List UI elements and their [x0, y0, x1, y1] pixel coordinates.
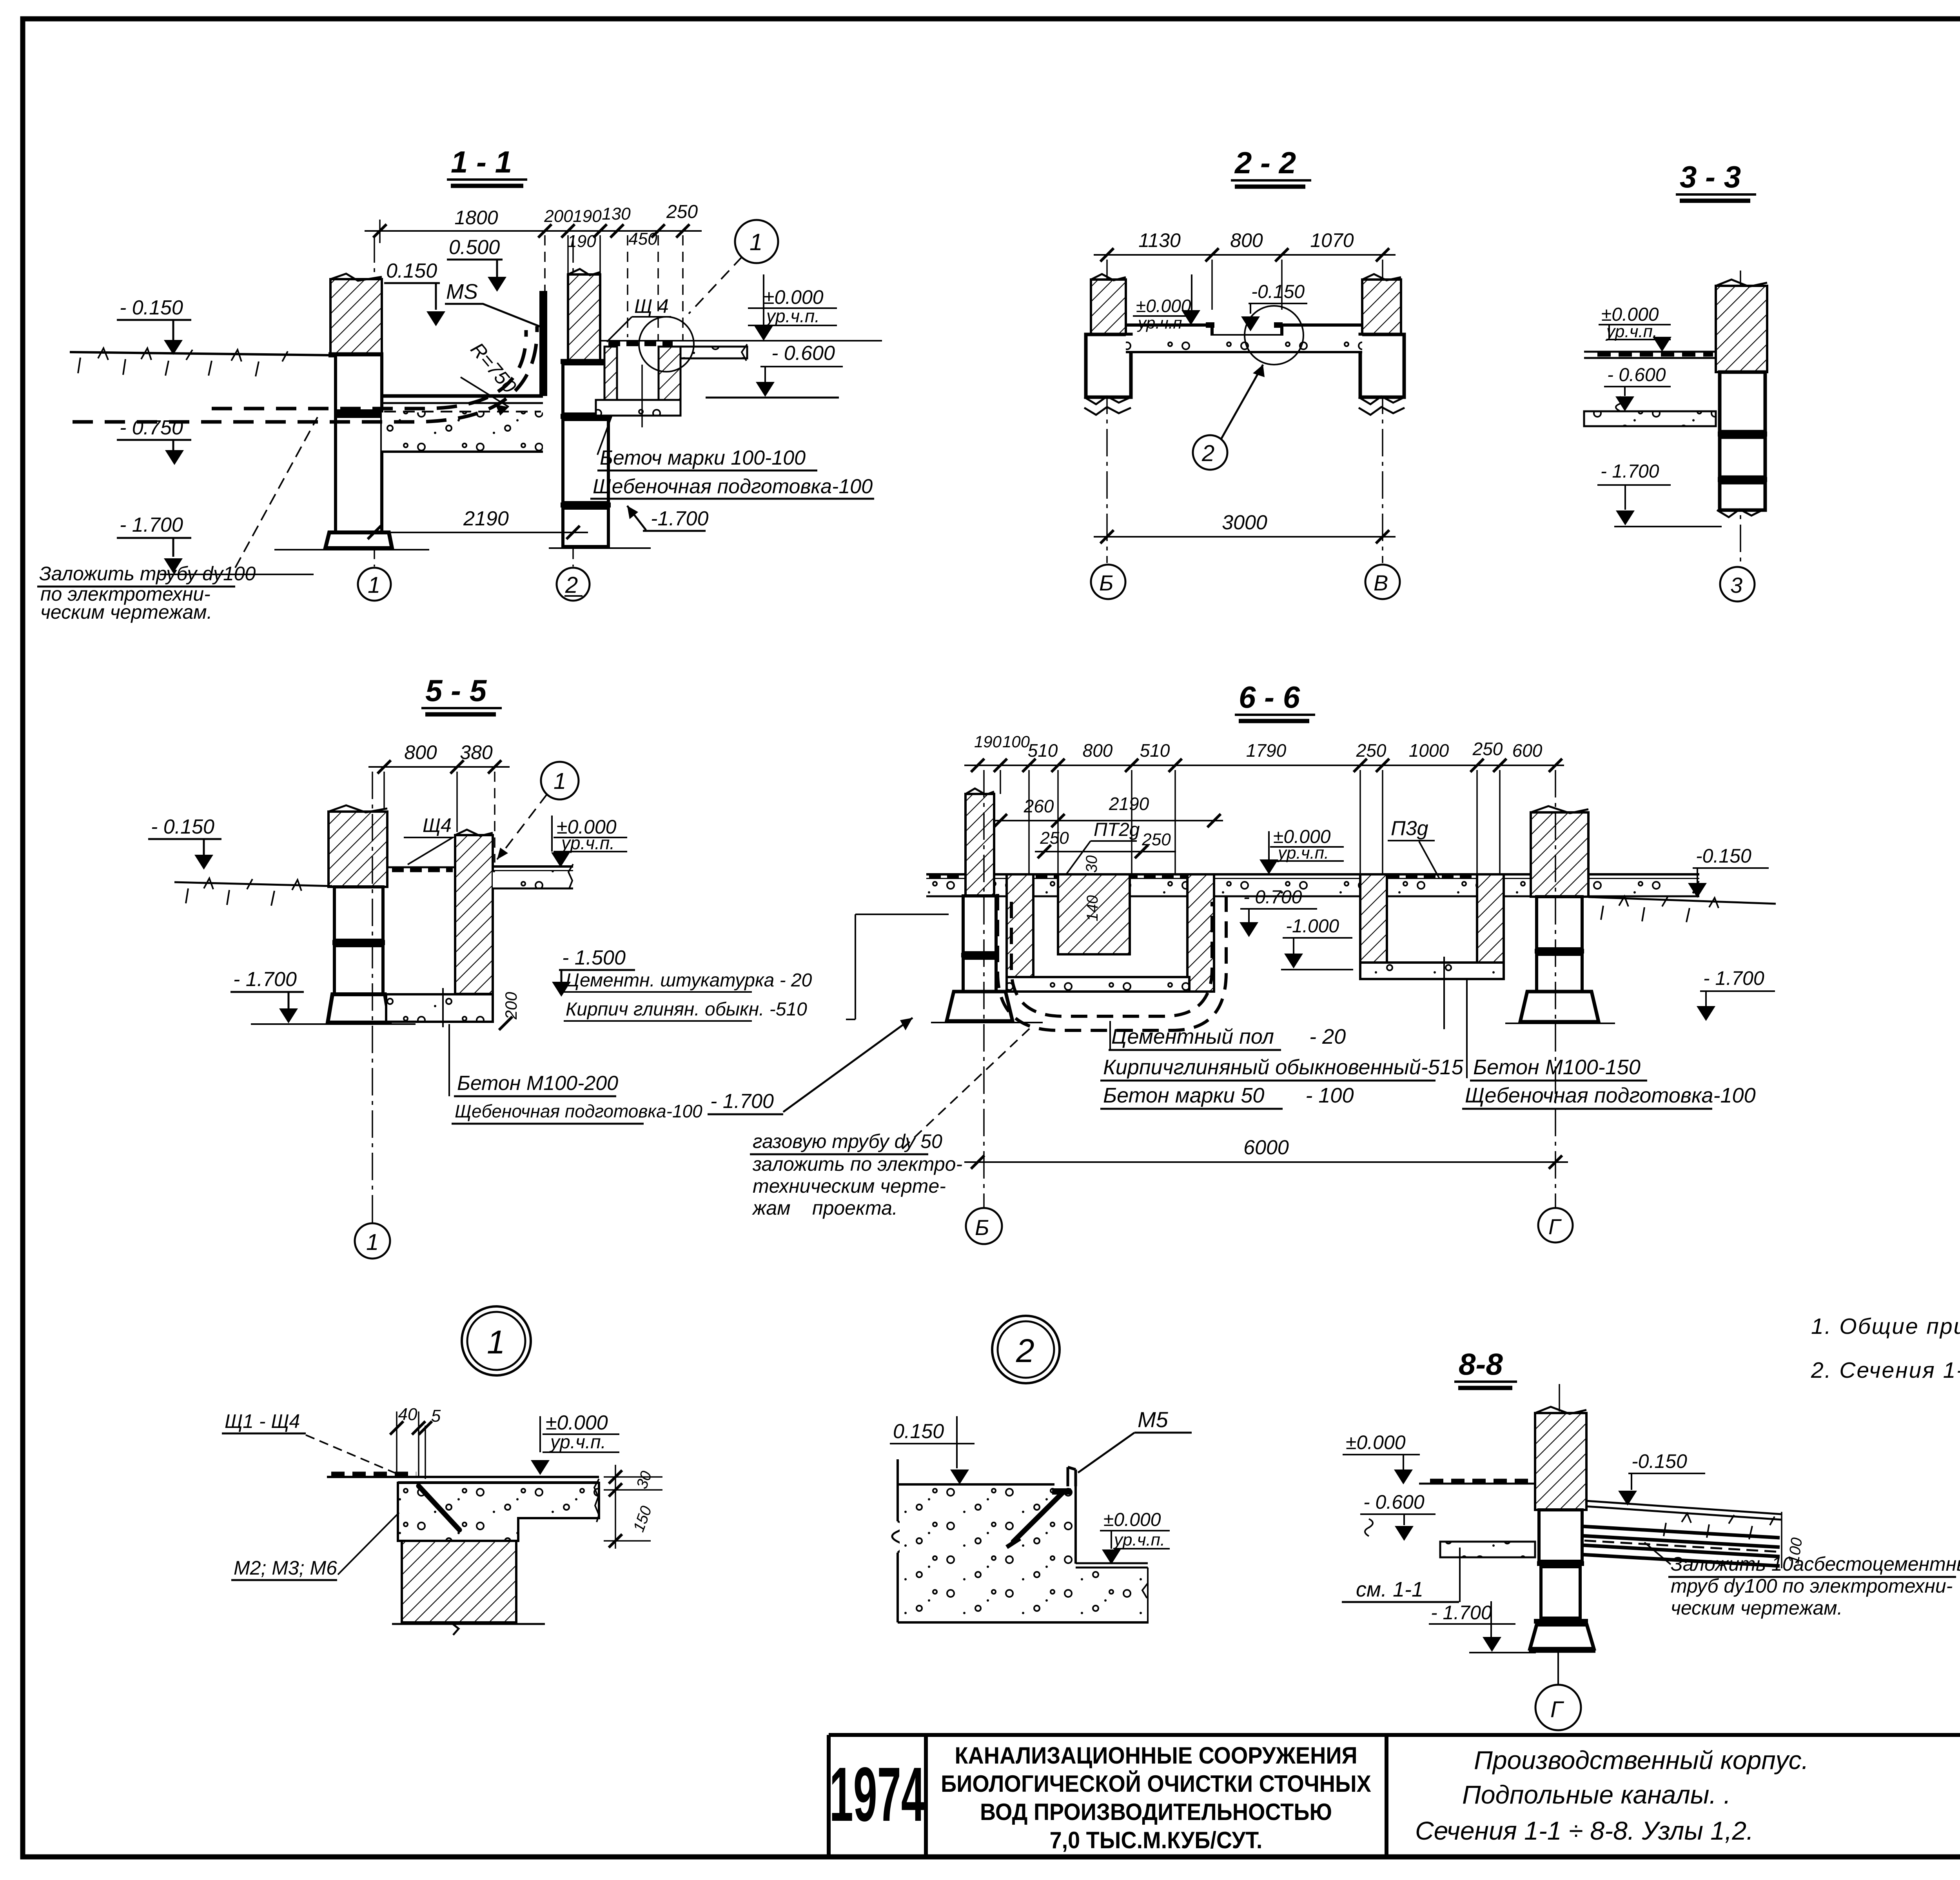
svg-text:- 0.600: - 0.600 [1607, 365, 1666, 385]
level -1.700 [1429, 1601, 1536, 1653]
label П3g [1388, 817, 1441, 881]
svg-text:40: 40 [398, 1405, 417, 1424]
concrete base layer [1584, 411, 1716, 426]
svg-text:±0.000: ±0.000 [764, 286, 824, 308]
column axis 1 foundation pad [274, 532, 429, 550]
svg-text:1: 1 [366, 1230, 379, 1255]
ground line left [174, 878, 332, 906]
axis 2 centerline [572, 235, 574, 567]
level +-0.000 [1133, 274, 1200, 332]
svg-text:-0.150: -0.150 [1251, 282, 1305, 302]
svg-text:- 0.700: - 0.700 [1243, 887, 1302, 908]
svg-text:190: 190 [974, 732, 1002, 751]
svg-text:- 0.600: - 0.600 [1363, 1491, 1425, 1513]
detail 2 concrete block [892, 1459, 1149, 1623]
svg-text:Беточ марки 100-100: Беточ марки 100-100 [600, 447, 806, 469]
axis 3 centerline [1740, 271, 1741, 566]
column shaft [332, 887, 385, 994]
channel 1 left wall [1007, 874, 1033, 992]
svg-text:250: 250 [1356, 740, 1387, 761]
svg-text:800: 800 [1083, 740, 1113, 761]
svg-text:- 0.750: - 0.750 [120, 416, 183, 439]
level -0.750 left [117, 416, 191, 465]
detail 1 bubble [462, 1306, 531, 1375]
column axis 2 pier [549, 361, 651, 548]
svg-text:Г: Г [1548, 1214, 1562, 1239]
axis bubble Б [966, 770, 1002, 1244]
axis bubble Б [1091, 565, 1125, 599]
label Щ4 [404, 814, 453, 865]
detail callout 1 [689, 220, 778, 314]
year 1974 [829, 1751, 925, 1837]
sheet title handwritten [1415, 1746, 1809, 1845]
channel 2 left wall [1360, 874, 1387, 977]
channel 1 bottom slab [1007, 977, 1189, 992]
level -1.700 right [1697, 967, 1775, 1021]
level -1.700 [230, 968, 304, 1023]
svg-text:- 0.150: - 0.150 [151, 816, 214, 838]
floor strip right of channel [681, 344, 747, 361]
ref см 1-1 [1342, 1548, 1460, 1602]
note gas pipe [750, 1028, 1030, 1219]
svg-text:600: 600 [1512, 740, 1543, 761]
channel bottom slab [596, 365, 681, 427]
svg-text:- 1.700: - 1.700 [710, 1090, 774, 1113]
svg-text:Кирпич глинян. обыкн. -510: Кирпич глинян. обыкн. -510 [566, 999, 807, 1020]
section 1-1 title [447, 145, 527, 186]
svg-text:250: 250 [1142, 830, 1171, 849]
section 5-5 title [421, 673, 502, 714]
svg-text:Кирпичглиняный обыкновенный-5: Кирпичглиняный обыкновенный-515 [1103, 1055, 1464, 1079]
label М5 [1078, 1407, 1192, 1473]
detail 1 concrete mass [398, 1479, 599, 1541]
svg-text:заложить по электро-: заложить по электро- [752, 1153, 962, 1175]
section 8-8 title [1454, 1347, 1517, 1388]
axis Б centerline [1106, 260, 1108, 563]
svg-text:Заложить трубу dy100: Заложить трубу dy100 [39, 563, 256, 585]
svg-text:3000: 3000 [1222, 511, 1267, 534]
level -0.700 [1240, 887, 1317, 937]
dimension 1130/800/1070 [1094, 229, 1396, 310]
svg-text:140: 140 [1084, 895, 1101, 921]
svg-text:Заложить 10асбестоцементных: Заложить 10асбестоцементных [1671, 1553, 1960, 1575]
svg-text:2: 2 [1016, 1332, 1034, 1369]
svg-text:Г: Г [1550, 1697, 1564, 1722]
label 0.150 [384, 260, 445, 326]
channel right wall [659, 347, 681, 400]
right vertical dims 30 150 [604, 1465, 662, 1549]
svg-text:3: 3 [1730, 573, 1742, 598]
svg-text:ческим чертежам.: ческим чертежам. [40, 601, 212, 623]
level -0.600 right [706, 342, 843, 398]
svg-text:450: 450 [628, 229, 657, 249]
note concrete grade 100 [590, 416, 874, 499]
level -0.150 [1618, 1450, 1705, 1506]
svg-text:190: 190 [567, 232, 596, 251]
svg-text:130: 130 [602, 204, 631, 223]
level +-0.000 [1343, 1431, 1420, 1484]
anchor bolt [419, 1486, 459, 1530]
svg-text:КАНАЛИЗАЦИОННЫЕ СООРУЖЕНИЯ: КАНАЛИЗАЦИОННЫЕ СООРУЖЕНИЯ [955, 1743, 1357, 1769]
svg-text:БИОЛОГИЧЕСКОЙ ОЧИСТКИ СТОЧНЫХ: БИОЛОГИЧЕСКОЙ ОЧИСТКИ СТОЧНЫХ [941, 1771, 1371, 1797]
label 0.500 [447, 236, 506, 292]
dimension 800/380 [368, 741, 510, 863]
svg-text:1 - 1: 1 - 1 [451, 145, 512, 179]
svg-text:-0.150: -0.150 [1696, 845, 1751, 867]
axis bubble 2 [557, 568, 590, 601]
svg-text:ВОД ПРОИЗВОДИТЕЛЬНОСТЬЮ: ВОД ПРОИЗВОДИТЕЛЬНОСТЬЮ [980, 1799, 1332, 1825]
svg-text:- 1.700: - 1.700 [120, 514, 183, 536]
pier below wall [1529, 1510, 1595, 1651]
detail 1 brick base [392, 1541, 545, 1635]
channel 2 right wall [1477, 874, 1504, 977]
label Щ1-Щ4 [222, 1410, 400, 1475]
svg-text:Б: Б [1099, 570, 1113, 595]
svg-text:100: 100 [1002, 732, 1030, 751]
svg-text:2190: 2190 [1109, 794, 1149, 814]
level -1.700 left with arrow [708, 1018, 913, 1114]
top dimension row [964, 732, 1564, 874]
svg-text:1000: 1000 [1409, 740, 1449, 761]
level -0.150 recess [1241, 282, 1307, 331]
svg-text:800: 800 [1230, 229, 1263, 251]
floor slab with recess [1126, 322, 1362, 352]
level -1.700 at pier base [627, 506, 709, 531]
svg-text:ПТ2g: ПТ2g [1094, 819, 1140, 840]
level +-0.000 lower [1100, 1509, 1170, 1564]
svg-text:Бетон М100-200: Бетон М100-200 [457, 1072, 618, 1095]
svg-text:см. 1-1: см. 1-1 [1356, 1578, 1423, 1601]
detail callout 1 [497, 762, 579, 859]
svg-text:- 1.700: - 1.700 [1703, 967, 1764, 989]
svg-text:М5: М5 [1138, 1407, 1169, 1432]
level +-0.000 [1599, 304, 1671, 352]
svg-text:8-8: 8-8 [1459, 1347, 1503, 1381]
floor slab [926, 874, 1699, 896]
channel bottom slab [386, 988, 493, 1027]
svg-text:200: 200 [544, 207, 573, 226]
svg-text:-0.150: -0.150 [1632, 1450, 1687, 1472]
svg-text:200: 200 [502, 992, 520, 1020]
svg-text:1800: 1800 [454, 207, 498, 229]
channel 1 central pier [1058, 874, 1130, 954]
svg-text:Щ 4: Щ 4 [634, 295, 669, 317]
svg-text:260: 260 [1024, 796, 1054, 816]
svg-text:250: 250 [666, 202, 698, 222]
axis bubble В [1365, 565, 1400, 599]
svg-text:±0.000: ±0.000 [1346, 1431, 1406, 1453]
level +-0.000 [531, 1411, 619, 1475]
dimension 6000 [964, 1136, 1568, 1169]
note asbestos pipes [1644, 1542, 1960, 1619]
wall axis Б hatched [1091, 274, 1126, 334]
level -0.150 right [1688, 845, 1769, 898]
svg-text:Бетон марки 50 - 100: Бетон марки 50 - 100 [1103, 1084, 1354, 1107]
svg-text:0.500: 0.500 [449, 236, 500, 259]
level 0.150 [890, 1416, 975, 1484]
svg-text:2. Сечения 1-1 ÷ 8-8 снесен: 2. Сечения 1-1 ÷ 8-8 снесены с листа КС-… [1811, 1358, 1960, 1383]
svg-text:- 0.600: - 0.600 [771, 342, 835, 365]
pier below wall [1717, 372, 1767, 517]
svg-text:2: 2 [565, 572, 578, 598]
svg-text:5: 5 [431, 1406, 441, 1426]
axis bubble Г [1535, 1652, 1581, 1730]
detail ref circle 2 [1193, 365, 1265, 470]
svg-text:380: 380 [460, 741, 493, 763]
section 2-2 title [1231, 145, 1311, 187]
svg-text:ческим чертежам.: ческим чертежам. [1671, 1597, 1842, 1619]
svg-text:1: 1 [554, 768, 566, 794]
channel cover between column and wall [387, 867, 455, 870]
М5 flashing angle [1007, 1467, 1076, 1547]
second dim row 260/2190 [992, 794, 1223, 827]
svg-text:Щебеночная подготовка-100: Щебеночная подготовка-100 [593, 475, 873, 498]
level +-0.000 [551, 816, 627, 867]
wall axis В footing [1359, 334, 1405, 415]
svg-text:5 - 5: 5 - 5 [425, 673, 487, 708]
third dim row 250/250 and ПТ2g [1035, 819, 1176, 877]
channel 1 right wall [1187, 874, 1214, 992]
project name stencil text [941, 1743, 1371, 1853]
svg-text:В: В [1374, 570, 1388, 595]
svg-text:П3g: П3g [1391, 817, 1428, 840]
note lay pipe dy100 [37, 417, 318, 623]
note cement plaster [564, 914, 949, 1021]
svg-text:Подпольные каналы. .: Подпольные каналы. . [1462, 1780, 1731, 1809]
svg-text:2190: 2190 [463, 507, 509, 530]
svg-text:510: 510 [1140, 740, 1170, 761]
svg-text:±0.000: ±0.000 [546, 1411, 608, 1434]
waterproofing dashed wrap [998, 894, 1226, 1030]
svg-text:ур.ч.п.: ур.ч.п. [1113, 1530, 1165, 1549]
svg-text:- 1.700: - 1.700 [1431, 1602, 1492, 1624]
level -0.600 [1604, 365, 1671, 411]
section 6-6 title [1235, 680, 1315, 721]
svg-text:2 - 2: 2 - 2 [1234, 145, 1296, 180]
svg-text:-1.700: -1.700 [651, 507, 709, 530]
label М2;М3;М6 [231, 1513, 399, 1580]
svg-text:7,0 ТЫС.М.КУБ/СУТ.: 7,0 ТЫС.М.КУБ/СУТ. [1050, 1827, 1263, 1853]
column axis 1 shaft [334, 355, 383, 532]
svg-text:Производственный корпус.: Производственный корпус. [1474, 1746, 1809, 1775]
level -0.600 [1360, 1491, 1436, 1541]
svg-text:- 1.700: - 1.700 [1601, 461, 1659, 482]
level -1.700 [1597, 461, 1722, 527]
svg-text:2: 2 [1201, 441, 1214, 466]
svg-text:±0.000: ±0.000 [1136, 296, 1191, 316]
level -1.000 [1281, 916, 1353, 970]
note beton M100-200 [449, 1024, 702, 1124]
svg-text:Сечения 1-1 ÷ 8-8. Узлы 1,: Сечения 1-1 ÷ 8-8. Узлы 1,2. [1415, 1816, 1753, 1845]
svg-text:Щебеночная подготовка-100: Щебеночная подготовка-100 [455, 1101, 702, 1121]
dims 40 5 [390, 1405, 441, 1479]
svg-text:Бетон М100-150: Бетон М100-150 [1473, 1055, 1641, 1079]
svg-text:510: 510 [1028, 740, 1058, 761]
svg-text:1790: 1790 [1246, 740, 1287, 761]
column hatched cap [328, 805, 387, 887]
column axis 2 hatched wall [568, 269, 600, 361]
detail 1 floor surface [327, 1474, 599, 1482]
column foundation pad [251, 994, 416, 1024]
callout circle on channel [639, 317, 694, 372]
svg-text:1130: 1130 [1138, 229, 1181, 251]
wall axis Б footing [1084, 334, 1131, 415]
svg-text:Щебеночная подготовка-100: Щебеночная подготовка-100 [1465, 1084, 1756, 1107]
svg-text:МS: МS [446, 280, 478, 303]
axis В centerline [1382, 260, 1383, 563]
svg-text:3 - 3: 3 - 3 [1680, 160, 1741, 194]
asbestos pipes bundle [1548, 1512, 1806, 1568]
dimension 3000 [1094, 511, 1396, 543]
svg-text:Б: Б [975, 1215, 989, 1240]
detail 2 bubble [992, 1316, 1060, 1383]
lower slab with dots [1440, 1542, 1535, 1557]
label MS [445, 280, 540, 327]
svg-text:М2; М3; М6: М2; М3; М6 [234, 1557, 337, 1579]
dimension line 1800/200/190/130/250 [365, 202, 702, 340]
title block grid [829, 1735, 1960, 1857]
axis bubble 3 [1720, 567, 1755, 601]
level -0.150 left [117, 296, 191, 355]
dimension 2190 [365, 507, 588, 539]
channel left wall [604, 347, 617, 400]
column axis 1 hatched cap [328, 274, 383, 355]
svg-text:газовую трубу dy 50: газовую трубу dy 50 [753, 1130, 942, 1152]
svg-text:190: 190 [573, 207, 602, 226]
svg-text:Щ1 - Щ4: Щ1 - Щ4 [225, 1410, 300, 1432]
pipe dashed line under floor [73, 326, 537, 422]
svg-text:Цементный пол - 20: Цементный пол - 20 [1111, 1025, 1346, 1048]
svg-text:техническим черте-: техническим черте- [753, 1175, 946, 1197]
svg-text:- 0.150: - 0.150 [120, 296, 183, 319]
sloping ground and floor right of wall [1586, 1501, 1782, 1539]
callout circle on recess [1245, 306, 1303, 365]
level -1.500 [552, 946, 635, 997]
level -0.150 [148, 816, 221, 870]
level -1.700 left [117, 514, 314, 574]
floor slab between axes [382, 396, 543, 452]
channel 2 bottom slab [1360, 957, 1504, 1029]
svg-text:жам проекта.: жам проекта. [752, 1197, 898, 1219]
svg-text:1: 1 [487, 1324, 505, 1361]
svg-text:1070: 1070 [1310, 229, 1354, 251]
wall axis Г [1505, 806, 1615, 1023]
svg-text:0.150: 0.150 [386, 260, 437, 282]
svg-text:6 - 6: 6 - 6 [1239, 680, 1300, 714]
svg-text:±0.000: ±0.000 [1103, 1509, 1161, 1530]
svg-text:30: 30 [1083, 856, 1100, 873]
wall axis Б [931, 788, 1043, 1023]
section 3-3 title [1676, 160, 1756, 201]
svg-text:-1.000: -1.000 [1286, 916, 1339, 937]
level +-0.000 right [748, 274, 837, 341]
svg-text:6000: 6000 [1243, 1136, 1289, 1159]
MS flashing bar [539, 291, 547, 396]
floor strip left of wall [1419, 1481, 1535, 1484]
ground line left of column [70, 348, 330, 376]
axis bubble 1 [355, 772, 390, 1259]
wall hatched [1535, 1384, 1586, 1510]
floor slab right of wall [493, 864, 573, 888]
axis bubble Г [1538, 770, 1573, 1242]
svg-text:1: 1 [368, 572, 380, 598]
level +-0.000 center [1259, 826, 1344, 874]
axis bubble 1 [358, 568, 391, 601]
svg-text:ур.ч.п.: ур.ч.п. [560, 833, 615, 853]
ground line right of Г [1588, 896, 1776, 922]
svg-text:- 1.700: - 1.700 [233, 968, 297, 991]
floor line with shield strip [1584, 352, 1716, 358]
note beton M100-150 [1462, 980, 1756, 1109]
note cement floor layers [1100, 1021, 1464, 1109]
svg-text:250: 250 [1472, 739, 1503, 759]
svg-text:труб dy100 по электротехни-: труб dy100 по электротехни- [1671, 1575, 1953, 1597]
label R=750 [461, 338, 521, 416]
wall hatched [1716, 280, 1767, 372]
svg-text:800: 800 [404, 741, 437, 763]
label Щ4 [607, 295, 671, 342]
axis 1 centerline [374, 235, 375, 567]
svg-text:250: 250 [1040, 828, 1069, 848]
svg-text:- 1.500: - 1.500 [562, 946, 626, 969]
svg-text:1: 1 [750, 229, 762, 255]
wall axis В hatched [1362, 274, 1401, 334]
svg-text:Щ4: Щ4 [423, 814, 452, 836]
svg-text:0.150: 0.150 [893, 1420, 944, 1443]
svg-text:1974: 1974 [829, 1751, 925, 1837]
svg-text:Цементн. штукатурка - 20: Цементн. штукатурка - 20 [566, 970, 812, 991]
channel cover strip (sheet Щ4) [600, 341, 882, 343]
dim 200 rotated [499, 992, 520, 1030]
brick wall [455, 830, 493, 994]
svg-text:1. Общие примечания см. чер: 1. Общие примечания см. черт. КС-12. [1811, 1314, 1960, 1339]
